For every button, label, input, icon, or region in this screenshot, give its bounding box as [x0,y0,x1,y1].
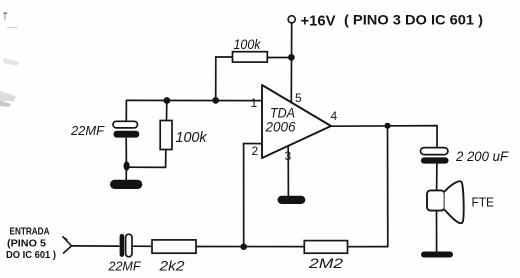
svg-text:2006: 2006 [265,119,296,135]
resistor R1 100k feedback [233,37,268,62]
wire feedback resistor left leg [216,57,233,100]
svg-text:100k: 100k [176,129,208,146]
svg-text:2: 2 [252,144,259,158]
svg-text:(PINO 5: (PINO 5 [7,238,46,250]
wire pin 2 [244,144,262,247]
svg-text:2M2: 2M2 [308,255,344,271]
supply terminal +16V [288,16,295,23]
wire cap C1 top lead [125,100,127,121]
ground left [110,180,142,189]
resistor R4 2M2 feedback [304,241,347,271]
wire feedback node down [387,126,389,247]
svg-text:22MF: 22MF [70,123,105,138]
resistor R3 2k2 input [152,240,196,274]
op-amp U1 TDA2006 [251,85,338,163]
wire feedback resistor right leg [267,57,291,59]
junction dot output node [384,123,390,129]
svg-text:5: 5 [295,91,302,105]
svg-text:( PINO 3 DO IC 601 ): ( PINO 3 DO IC 601 ) [344,12,483,28]
resistor R2 100k to ground [160,121,208,150]
wire cap C3 to speaker [436,164,438,191]
ground right speaker [421,252,453,258]
ground center below pin 3 [278,196,306,204]
svg-text:100k: 100k [234,37,262,52]
wire pin 3 to ground [287,146,289,196]
wire R2 bottom to ground node [128,150,166,168]
svg-text:+16V: +16V [301,13,336,30]
svg-text:2k2: 2k2 [158,258,184,274]
junction dot C1 ground node [124,161,130,170]
wire input segment [72,245,119,247]
wire speaker to ground [436,211,438,252]
wire input node horizontal [127,99,262,101]
wire cap C2 to R3 [133,245,152,247]
svg-text:FTE: FTE [472,195,495,210]
junction dot R2 on input wire [164,97,171,104]
wire R3 to node B [196,246,304,248]
capacitor C3 2200uF output [421,148,510,164]
speaker FTE [427,181,494,223]
svg-text:ENTRADA: ENTRADA [10,226,50,238]
capacitor C1 22MF input [70,121,139,138]
wire ground stem left [125,167,127,181]
svg-text:22MF: 22MF [108,259,142,274]
junction dot feedback left on input wire [212,97,219,104]
svg-text:1: 1 [251,96,258,110]
wire R2 top lead [166,101,168,121]
capacitor C2 22MF series input [108,234,142,274]
svg-text:2 200 uF: 2 200 uF [455,148,509,164]
svg-text:3: 3 [285,149,292,163]
svg-text:4: 4 [331,109,338,123]
junction dot node B bottom [240,243,247,250]
wire output pin 4 [332,126,438,148]
svg-text:DO IC 601 ): DO IC 601 ) [6,249,56,261]
wire supply to pin 5 [290,23,292,101]
wire R4 to feedback node [348,246,388,248]
input fork symbol [63,237,72,253]
wire cap C1 bottom lead [125,138,127,166]
junction dot node supply/feedback [288,54,295,61]
